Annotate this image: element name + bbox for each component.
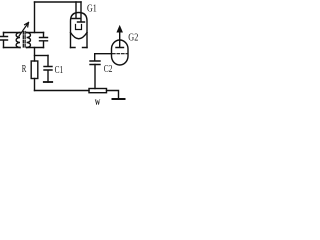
inductor primary winding [16, 33, 20, 48]
wire drop from rail to tank top [34, 2, 36, 33]
svg-text:C1: C1 [55, 65, 64, 76]
wire junction to C1 [35, 55, 49, 57]
tube G2 plate lead [116, 31, 124, 48]
svg-text:G2: G2 [128, 33, 138, 44]
tube G1 cathode [76, 25, 82, 30]
tube G1 feet [71, 47, 88, 49]
ground [113, 98, 125, 100]
svg-text:C2: C2 [104, 64, 113, 75]
arrow (variable tuning) [19, 23, 29, 37]
capacitor C2 [90, 54, 100, 65]
tube G2 filament (dashed) [113, 53, 128, 55]
wire right tank bottom [27, 47, 44, 49]
svg-text:R: R [22, 64, 27, 75]
wire C2 wiper lead [94, 65, 96, 89]
wire bottom rail [35, 90, 90, 92]
inductor secondary winding [27, 33, 31, 48]
terminal bar below C1 [44, 81, 52, 83]
capacitor left-tank (left branch) [0, 33, 8, 48]
resistor R [31, 61, 38, 79]
tube G1 anode lead [72, 2, 80, 19]
tube G2 envelope [112, 40, 129, 65]
arrow above G2 [117, 26, 122, 32]
capacitor right-tank (right branch) [40, 33, 48, 48]
tube G1 envelope [71, 13, 88, 48]
wire right tank top [27, 32, 44, 34]
wire left tank top [4, 32, 21, 34]
svg-text:G1: G1 [87, 4, 97, 15]
tube G1 inner bottom arc [71, 33, 88, 39]
potentiometer W [89, 89, 107, 93]
wire left tank bottom [4, 47, 21, 49]
capacitor C1 [44, 56, 52, 83]
transformer core (dashed) [23, 32, 25, 49]
wire tank bottom to R [34, 48, 36, 62]
wire R bottom lead [34, 79, 36, 91]
tube G1 second lead [78, 2, 85, 22]
wire pot right [107, 91, 119, 100]
wire top rail [35, 1, 82, 3]
svg-text:W: W [95, 97, 101, 107]
wire C2 top to G2 [95, 53, 112, 55]
